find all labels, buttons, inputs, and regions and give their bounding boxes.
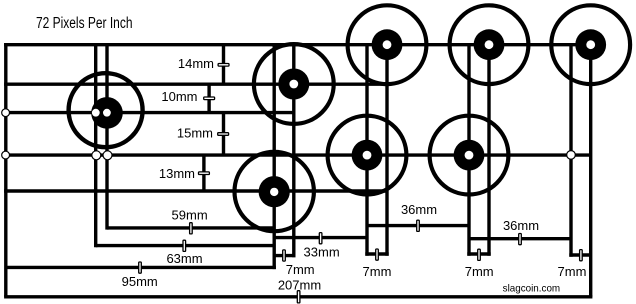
wire 7mm bracket right: [569, 253, 590, 256]
wire vertical through upper big button center: [292, 45, 295, 258]
svg-text:33mm: 33mm: [304, 244, 340, 259]
node joystick lower-left position: [92, 151, 101, 160]
wire 95mm dimension line: [6, 266, 276, 269]
button lower big center dot: [259, 176, 290, 207]
svg-text:207mm: 207mm: [278, 277, 321, 292]
wire vertical through lower big button center: [273, 45, 276, 269]
button T2 top row 2: [450, 5, 529, 84]
wire joystick left vertical: [94, 45, 97, 248]
wire H5 lower big-button line: [4, 189, 387, 192]
tick 7mm right pair: [580, 250, 583, 261]
svg-text:63mm: 63mm: [166, 251, 202, 266]
button upper big circle: [254, 44, 334, 124]
tick 13mm: [199, 172, 210, 175]
node on left border at middle row line: [2, 151, 10, 159]
button upper big center hole: [289, 80, 298, 89]
joystick position hole left: [92, 109, 100, 117]
joystick outer circle: [69, 73, 143, 147]
wire bottom border / 207mm line: [4, 295, 592, 298]
svg-text:7mm: 7mm: [363, 264, 392, 279]
button upper big center dot: [278, 69, 309, 100]
wire left border: [4, 43, 7, 297]
wire vertical M1 middle button 1 center: [365, 45, 368, 256]
wire 7mm bracket under buttons M2/T2: [467, 252, 490, 255]
wire 14mm measure vertical: [222, 45, 225, 84]
svg-text:36mm: 36mm: [503, 218, 539, 233]
wire vertical M3 empty position: [569, 45, 572, 257]
wire 7mm bracket under buttons M1/T1: [365, 252, 388, 255]
wire 33mm dimension line: [274, 236, 367, 239]
button T1 top row 1: [348, 5, 427, 84]
node empty button position right: [567, 151, 576, 160]
wire right border: [589, 45, 592, 297]
node joystick lower-right position: [103, 151, 112, 160]
svg-text:7mm: 7mm: [465, 264, 494, 279]
tick 15mm: [218, 133, 229, 136]
wire vertical M2 middle button 2 center: [467, 45, 470, 256]
node on left border at joystick upper line: [2, 109, 10, 117]
wire vertical T1 top button 1 center: [385, 45, 388, 256]
tick 7mm big pair: [283, 250, 286, 261]
tick 63mm: [183, 240, 186, 251]
svg-text:15mm: 15mm: [177, 126, 213, 141]
wire H1 top border through top button centers: [4, 43, 592, 46]
svg-text:7mm: 7mm: [558, 264, 587, 279]
tick 7mm left pair: [376, 249, 379, 260]
wire joystick right vertical: [105, 45, 108, 230]
wire 15mm measure vertical: [222, 113, 225, 156]
svg-text:13mm: 13mm: [159, 166, 195, 181]
wire 13mm measure vertical: [202, 155, 205, 191]
svg-text:slagcoin.com: slagcoin.com: [503, 283, 561, 295]
wire H4 middle row line: [4, 153, 591, 156]
wire 7mm segment between big button verticals: [274, 254, 295, 257]
svg-text:14mm: 14mm: [178, 56, 214, 71]
tick 207mm: [297, 291, 300, 303]
tick 95mm: [139, 262, 142, 273]
joystick position hole right: [103, 109, 111, 117]
tick 14mm: [218, 64, 229, 67]
wire 63mm dimension line: [96, 244, 275, 247]
tick 36mm right: [519, 234, 522, 245]
wire 36mm right dimension line: [469, 237, 571, 240]
svg-text:72 Pixels Per Inch: 72 Pixels Per Inch: [36, 15, 133, 32]
wire vertical T2 top button 2 center: [487, 45, 490, 256]
svg-text:10mm: 10mm: [161, 89, 197, 104]
wire 10mm measure vertical: [207, 84, 210, 112]
svg-text:59mm: 59mm: [172, 208, 208, 223]
button T3 top row 3: [551, 5, 630, 84]
button M2 middle row 2: [430, 116, 509, 195]
tick 33mm: [319, 233, 322, 244]
svg-text:95mm: 95mm: [122, 274, 158, 289]
tick 10mm: [204, 97, 215, 100]
wire 36mm left dimension line: [367, 224, 469, 227]
button lower big center hole: [270, 188, 278, 196]
tick 59mm: [190, 223, 193, 234]
wire H2 row line 14mm below top: [4, 82, 387, 85]
button lower big circle: [235, 152, 314, 231]
wire H3 joystick upper line: [4, 111, 294, 114]
svg-text:36mm: 36mm: [401, 202, 437, 217]
svg-text:7mm: 7mm: [286, 262, 315, 277]
joystick ball: [91, 97, 123, 129]
tick 7mm middle pair: [478, 249, 481, 260]
tick 36mm left: [417, 220, 420, 231]
button M1 middle row 1: [328, 116, 407, 195]
wire 59mm dimension line: [107, 226, 274, 229]
